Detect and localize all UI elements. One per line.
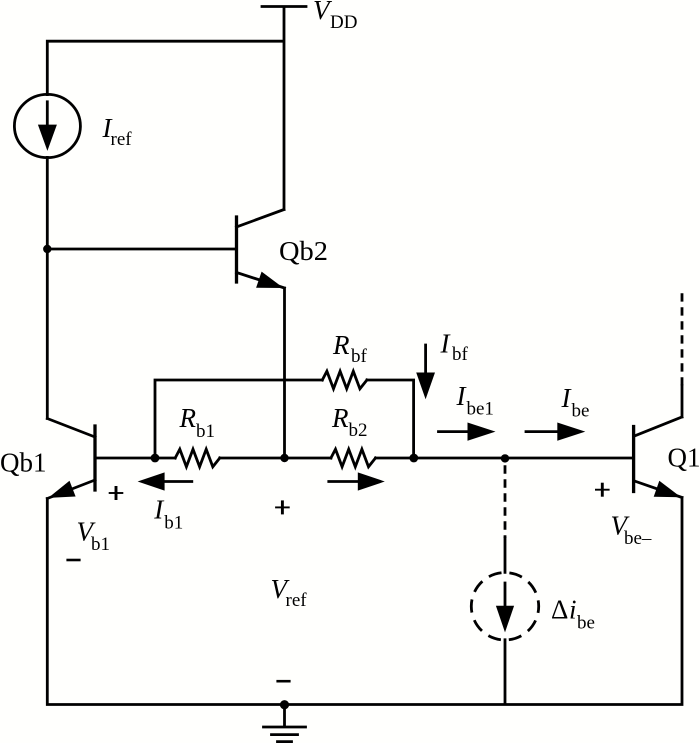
svg-text:ref: ref bbox=[111, 129, 133, 150]
svg-text:Δ: Δ bbox=[551, 594, 568, 624]
svg-text:R: R bbox=[332, 330, 350, 360]
svg-text:b1: b1 bbox=[164, 512, 183, 533]
svg-text:Qb1: Qb1 bbox=[0, 448, 47, 478]
svg-text:Q1: Q1 bbox=[668, 443, 700, 473]
svg-text:Qb2: Qb2 bbox=[279, 236, 328, 266]
svg-text:be–: be– bbox=[624, 528, 652, 549]
svg-text:b1: b1 bbox=[91, 534, 110, 555]
svg-text:bf: bf bbox=[351, 346, 368, 367]
svg-text:b2: b2 bbox=[349, 420, 368, 441]
svg-text:be: be bbox=[577, 613, 595, 634]
svg-text:be1: be1 bbox=[467, 399, 494, 420]
svg-text:be: be bbox=[572, 401, 590, 422]
svg-text:R: R bbox=[331, 403, 349, 433]
svg-text:DD: DD bbox=[330, 12, 357, 33]
svg-text:bf: bf bbox=[452, 344, 469, 365]
svg-text:b1: b1 bbox=[196, 421, 215, 442]
svg-text:ref: ref bbox=[286, 590, 308, 611]
svg-text:R: R bbox=[179, 403, 197, 433]
svg-text:i: i bbox=[569, 594, 577, 624]
